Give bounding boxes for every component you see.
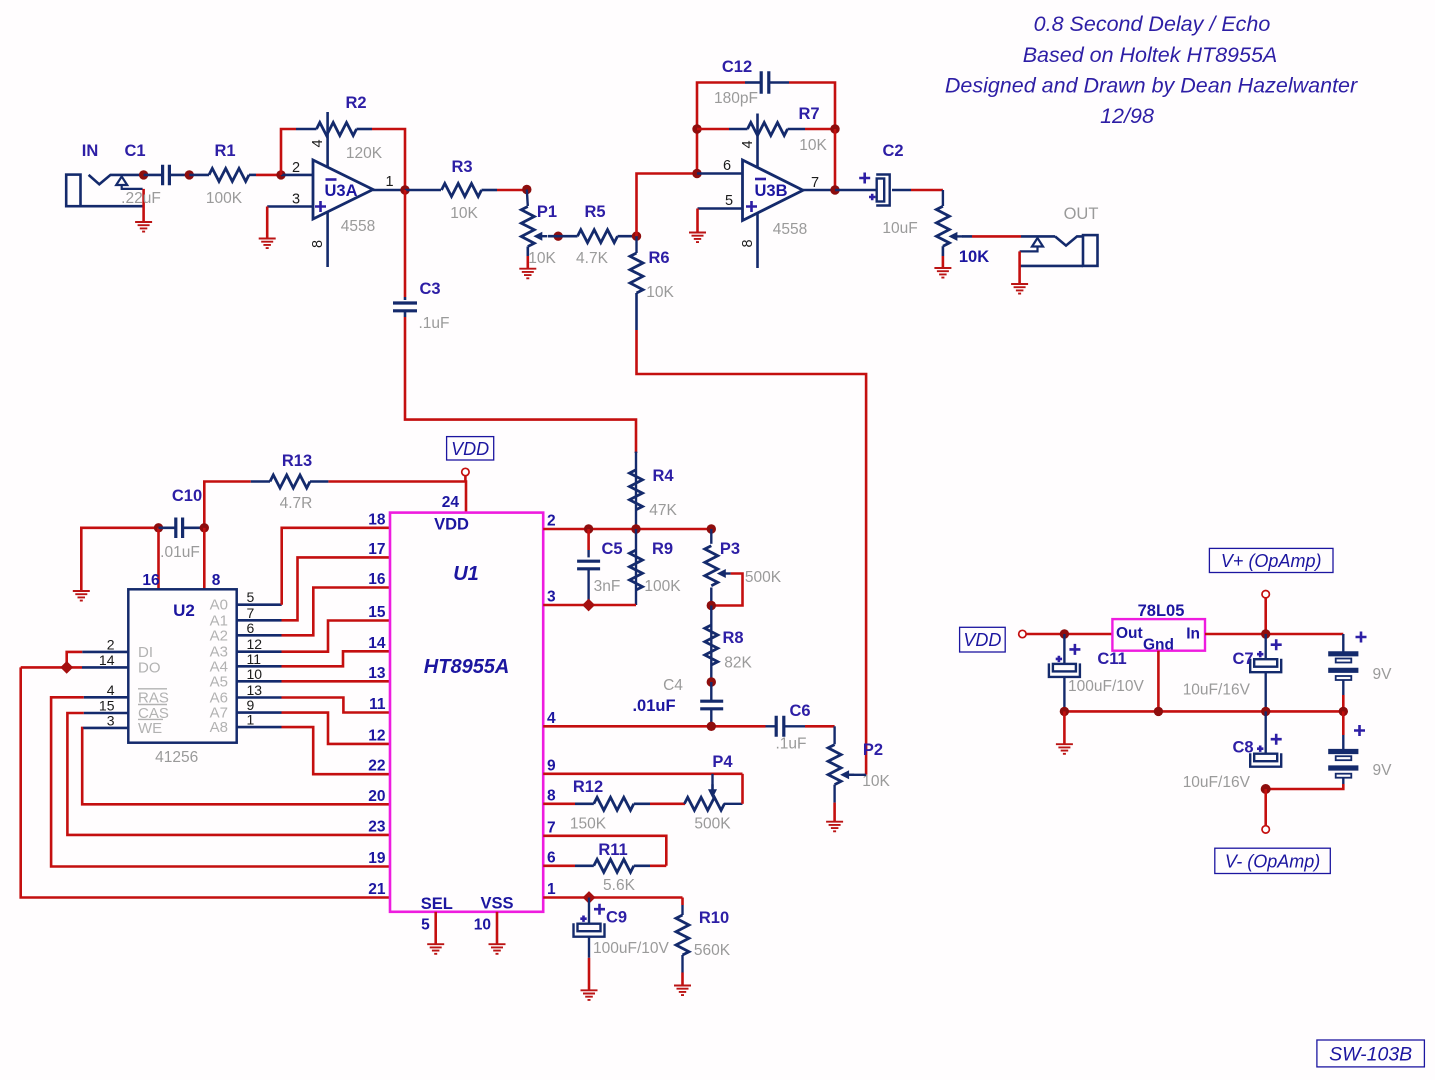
svg-text:R3: R3	[451, 158, 472, 176]
node C7 bottom / rail	[1261, 707, 1270, 716]
svg-text:R7: R7	[798, 105, 819, 123]
capacitor C9 (polarized)	[574, 898, 670, 958]
wire U2 DO pin 14	[82, 666, 128, 669]
svg-text:4558: 4558	[773, 221, 807, 238]
op-amp U3B	[743, 160, 808, 238]
node R5/R6	[632, 232, 641, 241]
svg-text:9V: 9V	[1373, 762, 1393, 779]
svg-text:C4: C4	[663, 677, 683, 694]
ground rail	[1064, 710, 1343, 713]
node C11 top	[1060, 629, 1069, 638]
capacitor C12	[714, 58, 789, 107]
svg-text:VDD: VDD	[451, 439, 489, 459]
wire C1 to node	[169, 174, 189, 177]
wire U1 pin 4 line	[543, 725, 765, 728]
node In / C7 / V+	[1261, 629, 1270, 638]
svg-text:P4: P4	[712, 753, 733, 771]
V+ OpAmp label	[1209, 548, 1333, 572]
svg-text:9: 9	[547, 757, 556, 774]
svg-text:9V: 9V	[1373, 666, 1393, 683]
ground (U3B pin 5)	[689, 233, 706, 243]
svg-text:15: 15	[99, 698, 115, 714]
svg-text:V- (OpAmp): V- (OpAmp)	[1225, 851, 1320, 871]
svg-text:SEL: SEL	[421, 895, 453, 913]
wire P2 wiper to R6 net	[846, 774, 866, 776]
wire node to U3A pin 2	[281, 174, 313, 177]
capacitor C5	[577, 529, 622, 605]
resistor R2	[296, 94, 383, 162]
svg-text:10K: 10K	[862, 773, 890, 790]
wire U2 pin 16	[157, 528, 160, 590]
wire A7 to U1 pin 12	[237, 711, 282, 714]
svg-text:C11: C11	[1097, 650, 1126, 668]
svg-text:V+ (OpAmp): V+ (OpAmp)	[1221, 551, 1322, 571]
wire U2 DI pin 2	[82, 651, 128, 654]
wire jack sleeve to ground	[142, 189, 145, 221]
node P1 wiper	[554, 232, 563, 241]
svg-text:8: 8	[740, 239, 756, 247]
ground (VSS)	[489, 944, 506, 954]
svg-text:20: 20	[368, 788, 385, 805]
node Gnd pin / rail	[1154, 707, 1163, 716]
svg-text:VDD: VDD	[434, 516, 469, 534]
svg-text:IN: IN	[82, 142, 99, 160]
wire pin2 node up to R2	[281, 129, 296, 175]
node C10 right / U2 pin8 / R13	[200, 523, 209, 532]
wire U1 pin 6 line	[543, 864, 575, 867]
svg-text:3nF: 3nF	[594, 578, 621, 595]
svg-text:19: 19	[368, 850, 386, 867]
node C12/R7 left	[692, 124, 701, 133]
wire C9 to ground	[588, 937, 590, 958]
wire U1 pin 3 line	[543, 604, 636, 607]
U2 right pin numbers	[247, 589, 263, 727]
U1 right pin numbers	[547, 513, 556, 899]
svg-text:A5: A5	[210, 673, 228, 690]
svg-text:500K: 500K	[694, 816, 731, 833]
svg-text:C3: C3	[419, 280, 440, 298]
svg-text:21: 21	[368, 881, 386, 898]
capacitor C4	[632, 677, 723, 726]
svg-text:DI: DI	[138, 644, 153, 661]
svg-text:HT8955A: HT8955A	[424, 656, 510, 678]
node C1/R1	[185, 170, 194, 179]
battery B2 9V	[1328, 711, 1392, 779]
wire A6 to U1 pin 11	[237, 696, 282, 699]
capacitor C6	[766, 702, 811, 753]
svg-text:P1: P1	[537, 203, 557, 221]
wire A2 to U1 pin 16	[237, 634, 282, 637]
resistor R6	[630, 236, 674, 301]
wire R7 left lead	[697, 128, 729, 131]
svg-text:Based on Holtek HT8955A: Based on Holtek HT8955A	[1023, 43, 1278, 67]
wire P2 bottom to ground	[833, 785, 835, 803]
svg-text:7: 7	[811, 175, 819, 191]
svg-text:U3A: U3A	[324, 182, 357, 200]
svg-text:1: 1	[547, 881, 556, 898]
wire jack sleeve to ground	[1018, 251, 1021, 283]
wire DO net down to U1 pin 21	[21, 667, 390, 897]
resistor R11	[575, 841, 650, 894]
title text	[945, 12, 1358, 128]
wire pot wiper to OUT jack	[962, 235, 972, 238]
svg-text:Out: Out	[1116, 625, 1143, 642]
svg-text:12: 12	[247, 636, 263, 652]
ground (C10 / U2 pin 16)	[73, 591, 90, 601]
wire A5 to U1 pin 13	[237, 680, 282, 683]
svg-text:A2: A2	[210, 627, 228, 644]
svg-text:4.7R: 4.7R	[280, 495, 313, 512]
capacitor C8 (polarized)	[1183, 711, 1282, 791]
svg-text:VDD: VDD	[963, 630, 1001, 650]
svg-text:5: 5	[725, 193, 733, 209]
potentiometer P3	[705, 529, 782, 586]
U3B pin 4 power line	[756, 114, 759, 168]
svg-text:RAS: RAS	[138, 689, 169, 706]
U3B pin 8 power line	[756, 213, 759, 268]
wire U1 pin 2 line	[543, 528, 711, 531]
wire R12 to P4	[650, 802, 685, 805]
wire R3 to P1 node	[482, 189, 498, 192]
wire A1 to U1 pin 17	[237, 619, 282, 622]
svg-text:DO: DO	[138, 659, 161, 676]
U2 internal pin names	[138, 597, 228, 737]
resistor R8	[705, 606, 753, 683]
capacitor C3	[393, 280, 450, 332]
node B1 / rail	[1339, 707, 1348, 716]
wire R5 to R6 node	[618, 235, 637, 238]
svg-text:150K: 150K	[570, 816, 607, 833]
svg-text:1: 1	[385, 174, 393, 190]
svg-text:SW-103B: SW-103B	[1329, 1043, 1412, 1065]
svg-text:11: 11	[247, 651, 262, 667]
svg-text:R8: R8	[722, 629, 743, 647]
node C4/pin4	[707, 722, 716, 731]
svg-text:10uF/16V: 10uF/16V	[1183, 774, 1251, 791]
node R8/C4	[707, 677, 716, 686]
wire U1 pin 1 line	[543, 896, 682, 899]
ground (SEL)	[427, 944, 444, 954]
wire U3A output to node	[373, 189, 405, 192]
svg-text:P2: P2	[863, 741, 883, 759]
node U3B output	[830, 185, 839, 194]
wire U2 pin 8	[203, 528, 206, 590]
svg-text:3: 3	[547, 589, 556, 606]
V- OpAmp label	[1215, 848, 1331, 873]
resistor R1	[206, 142, 249, 207]
wire C10 left to ground and U2 pin16	[81, 528, 158, 591]
svg-text:18: 18	[368, 511, 386, 528]
svg-text:WE: WE	[138, 720, 162, 737]
svg-text:OUT: OUT	[1064, 205, 1099, 223]
wire U3B output to node	[803, 189, 835, 192]
svg-text:10: 10	[474, 917, 491, 934]
potentiometer P4	[684, 753, 733, 833]
wire V+ bubble down to In rail	[1264, 598, 1267, 634]
resistor R7	[729, 105, 827, 154]
svg-text:4558: 4558	[341, 218, 375, 235]
svg-text:16: 16	[368, 571, 386, 588]
svg-text:R2: R2	[345, 94, 366, 112]
svg-text:R4: R4	[652, 467, 674, 485]
wire C11 to ground rail	[1063, 677, 1065, 712]
ground (R10)	[674, 986, 691, 996]
svg-text:C6: C6	[789, 702, 810, 720]
wire B2 bottom to V- node	[1342, 778, 1344, 784]
svg-text:2: 2	[292, 160, 300, 176]
svg-text:14: 14	[99, 652, 115, 668]
svg-text:11: 11	[369, 696, 386, 713]
wire B1 bottom to ground rail	[1342, 680, 1344, 695]
svg-text:3: 3	[107, 712, 115, 728]
wire C12 right to node	[789, 83, 835, 130]
node jack tip / C1	[139, 170, 148, 179]
svg-text:.01uF: .01uF	[632, 697, 675, 715]
ground (output pot)	[934, 268, 951, 278]
wire 78L05 In to battery	[1205, 633, 1343, 636]
svg-text:2: 2	[107, 636, 115, 652]
svg-text:4: 4	[740, 140, 756, 148]
svg-text:C7: C7	[1232, 650, 1253, 668]
svg-text:12/98: 12/98	[1100, 104, 1154, 128]
potentiometer P1	[521, 190, 557, 268]
wire C7 to ground rail	[1264, 672, 1266, 711]
svg-text:180pF: 180pF	[714, 90, 758, 107]
svg-text:8: 8	[212, 572, 221, 589]
node R3/P1	[522, 185, 531, 194]
svg-text:8: 8	[310, 240, 326, 248]
svg-text:4: 4	[310, 139, 326, 147]
U3B pin 5 wire	[698, 207, 743, 210]
ground (input jack)	[135, 222, 152, 232]
wire U1 pin 9 line	[543, 772, 742, 775]
capacitor C7 (polarized)	[1183, 634, 1282, 699]
svg-text:120K: 120K	[346, 145, 383, 162]
wire U1 VSS pin 10 to ground	[496, 912, 499, 944]
svg-text:5: 5	[247, 589, 255, 605]
svg-text:10K: 10K	[959, 248, 989, 266]
wire R1 to pin2 node	[249, 174, 256, 177]
potentiometer 10K (output level)	[936, 190, 989, 266]
op-amp U3A	[313, 160, 375, 235]
wire U1 SEL pin 5 to ground	[434, 912, 437, 944]
svg-text:R10: R10	[699, 909, 729, 927]
wire C11 node to ground	[1063, 711, 1066, 743]
svg-text:16: 16	[142, 572, 160, 589]
node C10 left / U2 pin16	[154, 523, 163, 532]
wire node up to U3B pin6 feed	[637, 174, 698, 237]
svg-text:C12: C12	[722, 58, 752, 76]
wire A0 to U1 pin 18	[237, 603, 282, 606]
wire VDD bubble to R13 net and U1 pin 24	[464, 476, 467, 482]
svg-text:.01uF: .01uF	[160, 544, 200, 561]
resistor R10	[676, 898, 731, 973]
battery B1 9V	[1328, 632, 1392, 684]
wire V- node to bubble	[1264, 789, 1267, 826]
node C11 bottom	[1060, 707, 1069, 716]
svg-text:R6: R6	[648, 249, 669, 267]
capacitor C11 (polarized)	[1049, 634, 1145, 695]
VDD power symbol (supply input)	[960, 627, 1006, 652]
wire node to R1	[189, 174, 209, 177]
svg-text:C9: C9	[606, 909, 627, 927]
svg-text:.1uF: .1uF	[775, 736, 806, 753]
svg-text:R9: R9	[652, 540, 673, 558]
resistor R3	[442, 158, 482, 222]
wire 78L05 Gnd pin	[1157, 651, 1160, 712]
voltage regulator 78L05	[1112, 602, 1205, 654]
svg-text:13: 13	[368, 665, 386, 682]
wire P4 right to pin 9 line	[724, 803, 743, 805]
U1 left pin numbers	[368, 511, 386, 898]
drawing number SW-103B	[1317, 1040, 1425, 1067]
svg-text:5: 5	[421, 917, 430, 934]
svg-text:R12: R12	[573, 778, 603, 796]
node P3 bottom	[707, 601, 716, 610]
svg-text:15: 15	[368, 604, 386, 621]
wire R7 right to node	[805, 128, 835, 131]
svg-text:0.8 Second Delay / Echo: 0.8 Second Delay / Echo	[1034, 12, 1271, 36]
svg-text:22: 22	[368, 758, 385, 775]
wire A3 to U1 pin 15	[237, 650, 282, 653]
wire pot bottom to ground	[942, 246, 945, 256]
svg-text:10uF: 10uF	[882, 220, 917, 237]
wire R6 bottom to P2 net	[635, 293, 638, 330]
node R4/R9	[631, 524, 640, 533]
resistor R4	[630, 452, 678, 529]
svg-text:R13: R13	[282, 452, 312, 470]
IC U1 HT8955A box	[390, 513, 543, 913]
wire node down to U3B output	[834, 129, 837, 190]
capacitor C10	[160, 487, 202, 561]
svg-text:4: 4	[107, 682, 115, 698]
wire U2 RAS pin 4	[84, 696, 129, 699]
wire U1 pin 8 line	[543, 802, 575, 805]
wire C10 leads	[159, 526, 176, 529]
svg-text:17: 17	[368, 541, 385, 558]
svg-text:82K: 82K	[724, 655, 752, 672]
svg-text:560K: 560K	[694, 942, 731, 959]
svg-text:VSS: VSS	[480, 895, 513, 913]
svg-text:12: 12	[368, 727, 385, 744]
svg-text:4.7K: 4.7K	[576, 250, 609, 267]
ground (output jack)	[1011, 284, 1028, 294]
output jack J2 (OUT)	[1020, 205, 1099, 266]
svg-text:U2: U2	[173, 601, 195, 620]
svg-text:A8: A8	[210, 719, 228, 736]
resistor R13	[251, 452, 329, 512]
svg-text:C8: C8	[1232, 739, 1253, 757]
wire P3 bottom	[710, 588, 712, 606]
ground (P2)	[826, 822, 843, 832]
wire pin3 to ground	[266, 207, 269, 239]
U3A pin 3 wire	[267, 205, 313, 208]
svg-text:23: 23	[368, 818, 386, 835]
wire U1 pin 7 line	[543, 836, 666, 866]
IC U2 41256 box	[128, 589, 236, 766]
node C12/R7 right	[830, 124, 839, 133]
svg-text:.22uF: .22uF	[121, 190, 161, 207]
node DI/DO junction	[60, 661, 73, 674]
ground (U3A pin 3)	[259, 239, 276, 249]
svg-text:10uF/16V: 10uF/16V	[1183, 682, 1251, 699]
svg-text:10K: 10K	[450, 205, 478, 222]
potentiometer P2	[828, 741, 890, 790]
ground (C9)	[581, 990, 598, 1000]
svg-text:4: 4	[547, 710, 556, 727]
svg-text:C2: C2	[882, 142, 903, 160]
input jack J1 (IN)	[66, 142, 143, 206]
wire jack to C1	[144, 174, 162, 177]
svg-text:8: 8	[547, 787, 556, 804]
svg-text:A0: A0	[210, 597, 228, 614]
wire U2 CAS pin 15	[84, 712, 129, 715]
node C5/pin3	[582, 599, 595, 612]
svg-text:C1: C1	[124, 142, 145, 160]
svg-text:10K: 10K	[646, 284, 674, 301]
svg-text:78L05: 78L05	[1138, 602, 1185, 620]
svg-text:7: 7	[247, 605, 255, 621]
capacitor C2 (polarized)	[859, 142, 917, 237]
wire output node down to C3	[404, 190, 407, 297]
wire pin6 node up / C12 loop left	[697, 83, 745, 174]
svg-text:10: 10	[247, 666, 263, 682]
svg-text:R1: R1	[214, 142, 235, 160]
svg-text:R11: R11	[598, 841, 627, 859]
wire C3 down to R4 net	[404, 311, 407, 317]
wire node to R3	[405, 189, 441, 192]
node C9/pin1	[583, 891, 596, 904]
svg-text:500K: 500K	[745, 569, 782, 586]
wire output node to C2	[835, 189, 877, 192]
svg-text:100K: 100K	[644, 578, 681, 595]
capacitor C1	[121, 142, 169, 207]
svg-text:14: 14	[368, 635, 386, 652]
node U3A pin2	[276, 170, 285, 179]
svg-text:6: 6	[247, 620, 255, 636]
wire P1 wiper to R5	[548, 235, 578, 238]
svg-text:13: 13	[247, 682, 263, 698]
svg-text:100K: 100K	[206, 190, 243, 207]
svg-text:10K: 10K	[528, 250, 556, 267]
VDD power symbol (top)	[447, 437, 494, 460]
svg-text:100uF/10V: 100uF/10V	[593, 940, 669, 957]
svg-text:6: 6	[547, 849, 556, 866]
svg-text:In: In	[1186, 626, 1200, 643]
wire A4 to U1 pin 14	[237, 665, 282, 668]
wire P3 wiper loop	[711, 574, 742, 606]
wire R13 left to C10 node	[204, 482, 250, 528]
svg-text:100uF/10V: 100uF/10V	[1068, 678, 1144, 695]
svg-text:2: 2	[547, 513, 556, 530]
U2 left pin numbers	[99, 636, 115, 728]
svg-text:24: 24	[442, 494, 460, 511]
wire C2 to output pot	[892, 189, 911, 192]
wire U2 WE pin 3	[83, 727, 128, 730]
wire pin5 to ground	[696, 209, 699, 233]
svg-text:5.6K: 5.6K	[603, 877, 636, 894]
wire C6 to P2	[805, 725, 835, 728]
svg-text:P3: P3	[720, 540, 740, 558]
resistor R9	[630, 529, 682, 605]
resistor R12	[570, 778, 650, 833]
svg-text:10K: 10K	[799, 137, 827, 154]
svg-text:6: 6	[723, 158, 731, 174]
svg-text:41256: 41256	[155, 749, 198, 766]
svg-text:7: 7	[547, 819, 556, 836]
wire A8 to U1 pin 22	[237, 726, 282, 729]
U3A pin 4 power line	[326, 112, 329, 168]
